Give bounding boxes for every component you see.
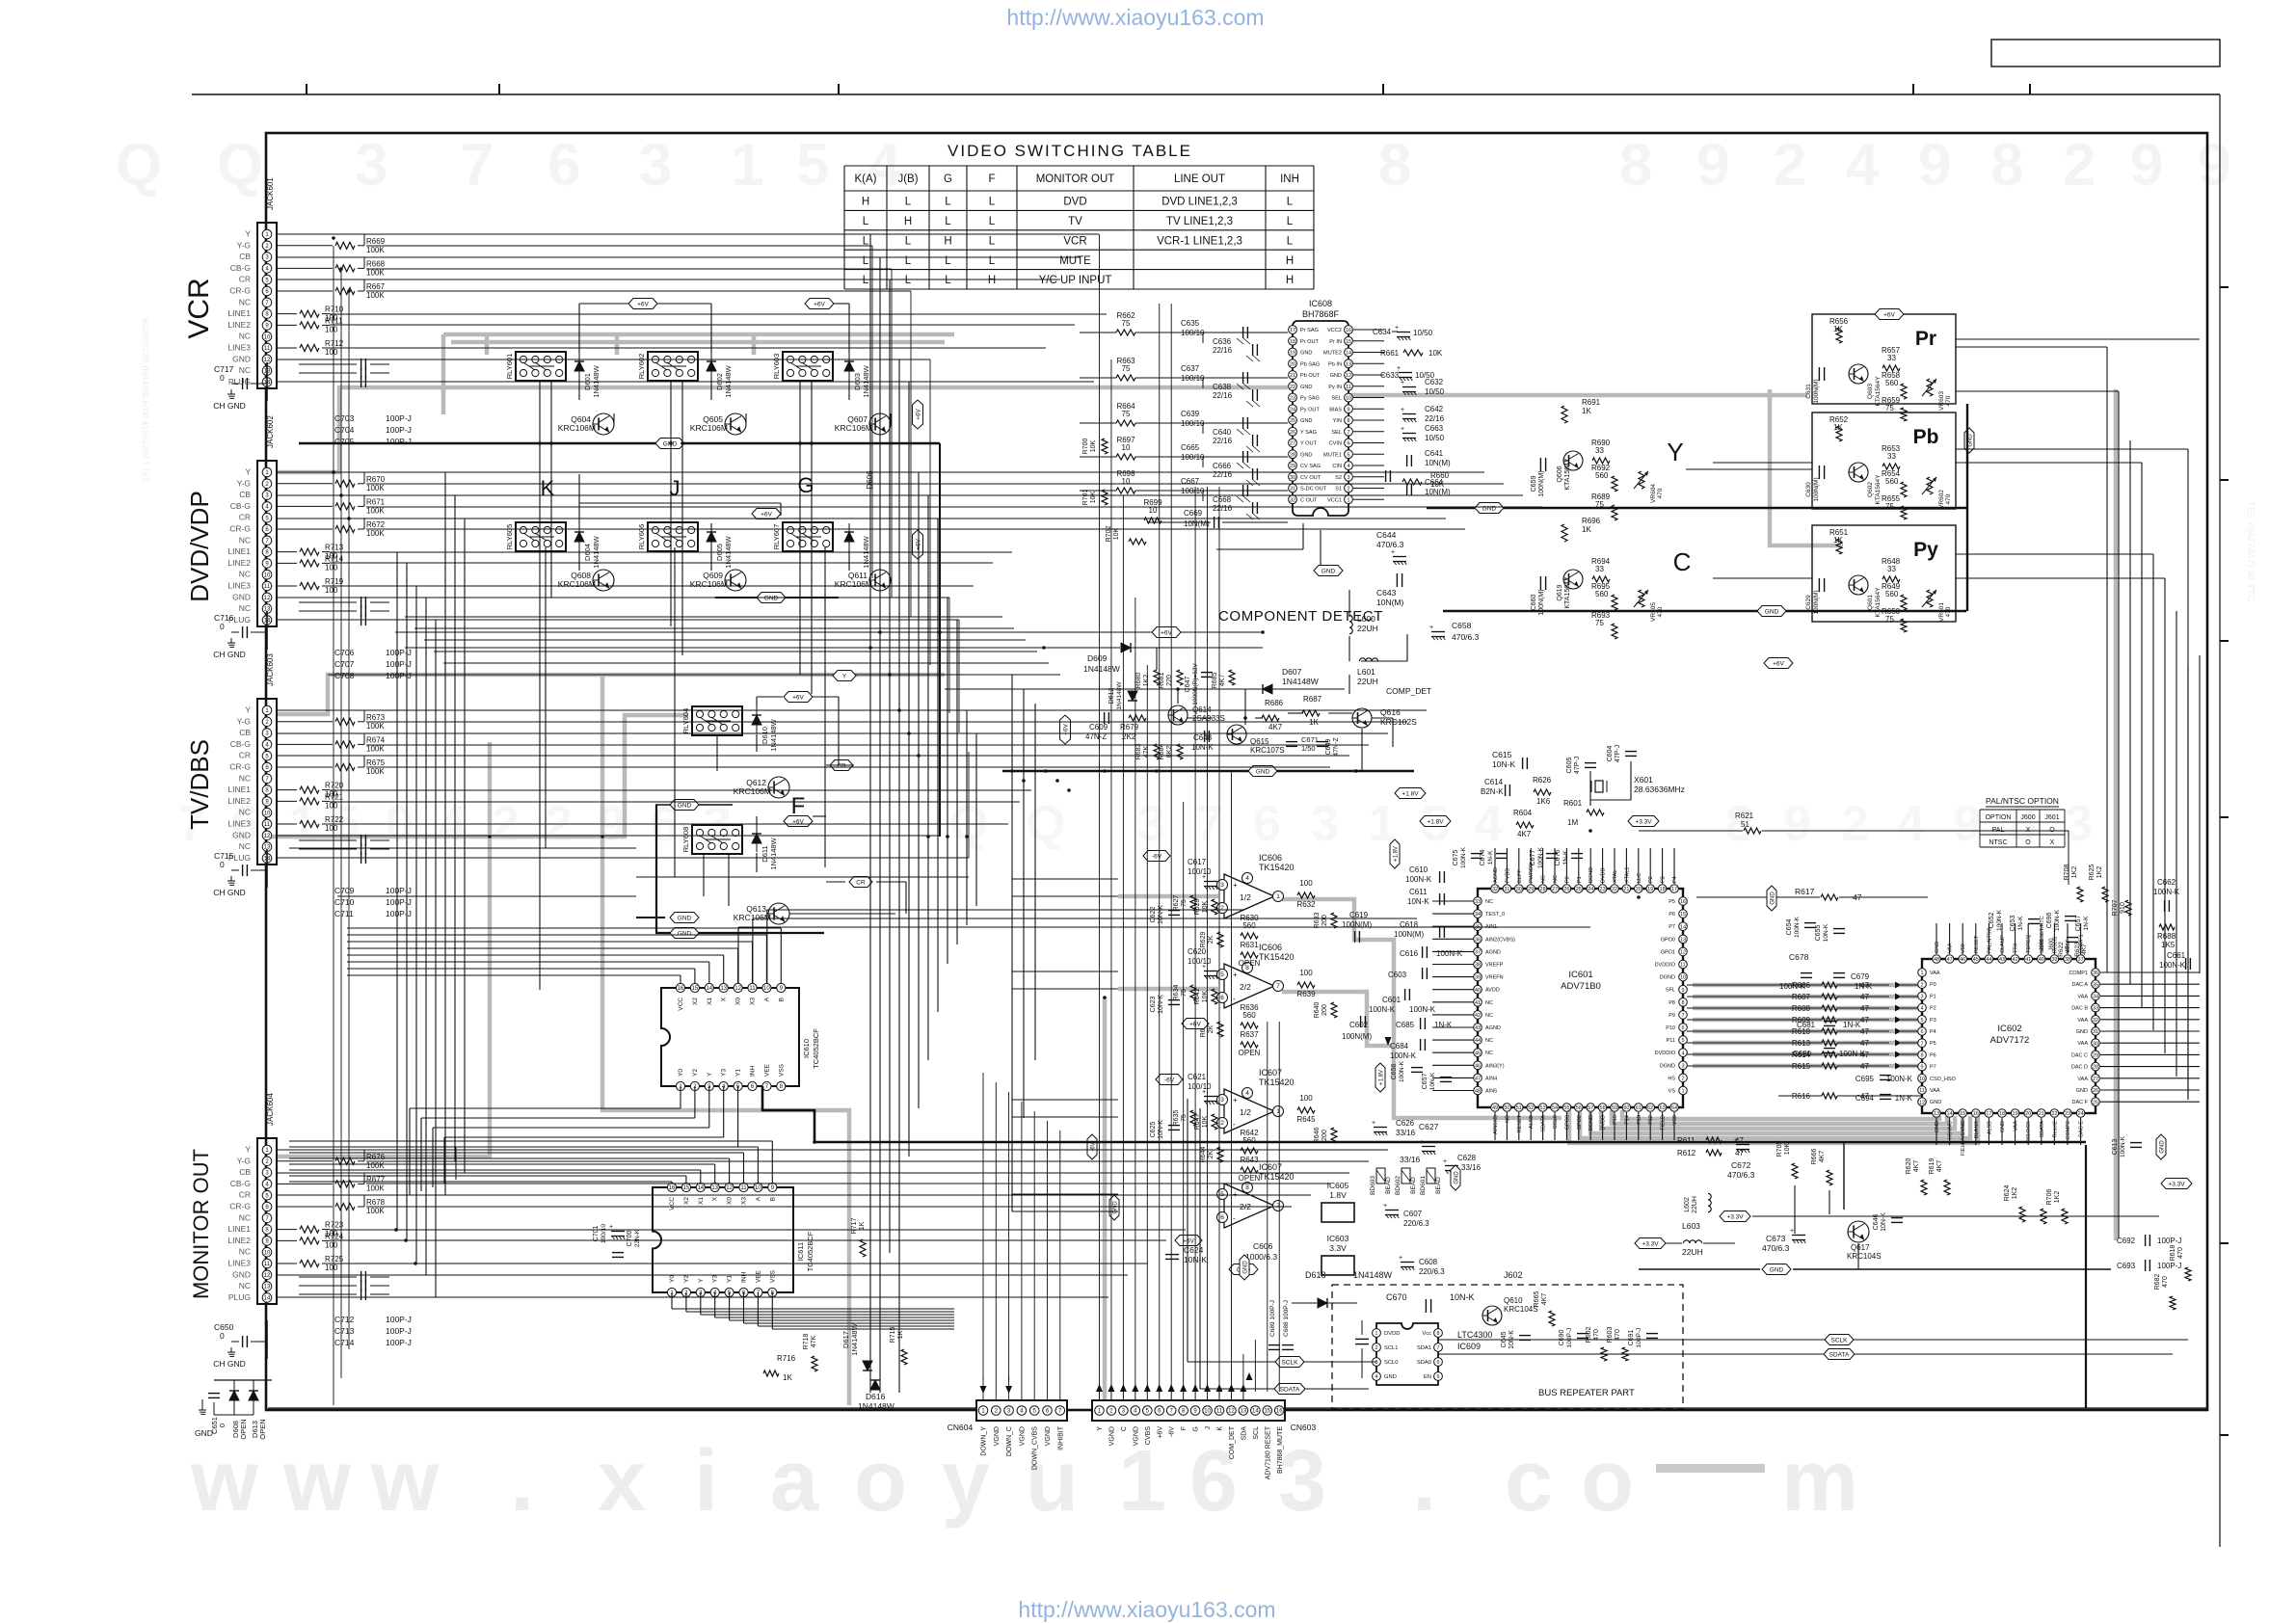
- svg-text:560: 560: [1242, 1011, 1256, 1020]
- svg-text:100P-J: 100P-J: [386, 671, 412, 680]
- svg-text:15: 15: [683, 1185, 690, 1191]
- block Py: [1812, 525, 1956, 622]
- svg-text:CSO_HSO: CSO_HSO: [1930, 1077, 1957, 1082]
- svg-text:COMP1: COMP1: [2069, 971, 2088, 976]
- svg-text:C691: C691: [1628, 1330, 1635, 1346]
- IC IC610 TC4052BCF: [661, 988, 799, 1086]
- svg-text:JACK603: JACK603: [266, 653, 275, 686]
- svg-text:C703: C703: [334, 413, 355, 423]
- transistor Q606: [1563, 451, 1583, 470]
- svg-text:10: 10: [763, 986, 770, 992]
- svg-text:32: 32: [1290, 497, 1295, 503]
- svg-text:XTAL: XTAL: [1613, 870, 1618, 883]
- gnd bus y634: [1443, 610, 1966, 613]
- svg-text:GPO1: GPO1: [1661, 949, 1675, 955]
- svg-text:10: 10: [264, 334, 271, 340]
- svg-text:CR: CR: [239, 513, 251, 522]
- svg-text:1N4148W: 1N4148W: [858, 1401, 894, 1411]
- svg-text:VR604: VR604: [1650, 484, 1657, 503]
- svg-text:C609: C609: [1089, 723, 1108, 732]
- svg-text:P2: P2: [1648, 876, 1654, 883]
- svg-text:VR601: VR601: [1938, 602, 1945, 622]
- svg-text:SCL: SCL: [1253, 1426, 1260, 1440]
- svg-text:BEAD: BEAD: [1385, 1177, 1392, 1194]
- transistor Q602: [1849, 463, 1868, 482]
- svg-text:C678: C678: [1789, 952, 1809, 962]
- svg-text:18: 18: [1999, 1111, 2005, 1117]
- svg-text:NC: NC: [1485, 1000, 1493, 1006]
- wire ic610 bottom left fan: [680, 1086, 681, 1108]
- svg-text:SCLK: SCLK: [1282, 1359, 1299, 1366]
- svg-text:100N-K: 100N-K: [1409, 1005, 1436, 1014]
- svg-text:470/6.3: 470/6.3: [1727, 1170, 1755, 1180]
- svg-text:IC611: IC611: [796, 1242, 805, 1261]
- power -6V b: [1156, 1075, 1183, 1085]
- svg-text:1K: 1K: [783, 1373, 792, 1382]
- svg-text:IC606: IC606: [1259, 943, 1282, 952]
- resistor R674: [277, 743, 333, 745]
- svg-text:+: +: [1383, 1203, 1387, 1210]
- svg-text:B: B: [769, 1197, 776, 1201]
- svg-text:C671: C671: [1301, 735, 1319, 744]
- svg-text:PLUG: PLUG: [228, 1292, 251, 1302]
- svg-text:K(A): K(A): [855, 173, 877, 185]
- svg-text:75: 75: [1181, 899, 1188, 907]
- svg-text:1: 1: [1920, 971, 1923, 976]
- svg-text:R711: R711: [325, 316, 343, 325]
- svg-text:1N-K: 1N-K: [1434, 1021, 1453, 1029]
- transistor Q613: [768, 903, 789, 924]
- svg-text:D609: D609: [1087, 653, 1108, 663]
- svg-text:4K7: 4K7: [1936, 1160, 1943, 1173]
- svg-text:BLANK: BLANK: [1974, 1121, 1980, 1138]
- svg-text:OPEN: OPEN: [1239, 1049, 1261, 1057]
- wire thick y1185 extension: [1844, 1141, 2086, 1144]
- svg-text:75: 75: [1122, 319, 1131, 328]
- svg-text:100: 100: [325, 801, 338, 810]
- svg-text:CN603: CN603: [1291, 1423, 1317, 1432]
- IC IC609 LTC4300: [1376, 1323, 1438, 1385]
- svg-text:1K6: 1K6: [1536, 797, 1551, 806]
- svg-text:+: +: [1401, 380, 1404, 386]
- svg-text:R706: R706: [2046, 1189, 2053, 1206]
- svg-text:4K7: 4K7: [1541, 1293, 1548, 1306]
- svg-text:P10: P10: [1666, 1025, 1675, 1031]
- svg-text:Y: Y: [707, 1072, 713, 1077]
- resistor R723: [277, 1229, 297, 1231]
- svg-text:10N(M): 10N(M): [1376, 598, 1404, 607]
- svg-text:GND: GND: [232, 830, 251, 839]
- block Pb: [1812, 412, 1956, 509]
- svg-text:75: 75: [1181, 1114, 1188, 1122]
- svg-text:560: 560: [1242, 921, 1256, 930]
- svg-text:25: 25: [1576, 887, 1582, 892]
- svg-text:+: +: [1401, 426, 1404, 433]
- svg-text:+3.3V: +3.3V: [1726, 1213, 1744, 1220]
- svg-text:TEST_0: TEST_0: [1485, 912, 1505, 918]
- svg-text:R669: R669: [366, 237, 386, 246]
- svg-text:24: 24: [1290, 407, 1295, 412]
- svg-text:+1.8V: +1.8V: [1393, 846, 1399, 862]
- svg-text:18: 18: [1660, 887, 1666, 892]
- svg-text:6: 6: [1253, 796, 1281, 852]
- resistor R670: [277, 483, 333, 485]
- power +6V pr: [1875, 309, 1904, 320]
- wire relay row2 stubs: [578, 474, 580, 523]
- svg-text:C694: C694: [1855, 1094, 1875, 1103]
- svg-text:R672: R672: [366, 520, 386, 529]
- svg-text:K: K: [541, 476, 555, 500]
- svg-text:29: 29: [1528, 887, 1534, 892]
- inductor L600: [1349, 615, 1352, 621]
- svg-text:L603: L603: [1682, 1221, 1700, 1231]
- transistor Q609: [725, 570, 746, 591]
- svg-text:GND: GND: [232, 1269, 251, 1279]
- svg-text:OPEN: OPEN: [258, 1419, 267, 1439]
- svg-text:P4: P4: [1930, 1029, 1936, 1035]
- gnd rot: [1767, 886, 1776, 911]
- svg-text:D607: D607: [1282, 667, 1302, 677]
- svg-text:23: 23: [2065, 1111, 2070, 1117]
- svg-text:2/2: 2/2: [1240, 982, 1251, 992]
- svg-text:R620: R620: [1906, 1158, 1912, 1175]
- svg-text:O: O: [2025, 839, 2031, 846]
- svg-text:14: 14: [1252, 1409, 1259, 1415]
- svg-text:1K: 1K: [1582, 525, 1591, 534]
- svg-text:R691: R691: [1582, 398, 1601, 407]
- connector CN603: [1092, 1400, 1285, 1421]
- svg-text:VAA: VAA: [2077, 1018, 2088, 1024]
- svg-text:R604: R604: [1513, 809, 1533, 817]
- svg-text:4: 4: [1245, 1090, 1249, 1097]
- relay RLY604: [692, 706, 742, 735]
- svg-text:C707: C707: [334, 659, 355, 669]
- svg-text:C693: C693: [2117, 1262, 2136, 1270]
- svg-text:16: 16: [1276, 1409, 1283, 1415]
- svg-text:TK15420: TK15420: [1259, 863, 1295, 872]
- svg-text:C607: C607: [1403, 1210, 1423, 1218]
- svg-text:6: 6: [1920, 1029, 1923, 1035]
- svg-text:3: 3: [1137, 796, 1165, 852]
- svg-text:22UH: 22UH: [1682, 1247, 1703, 1257]
- svg-text:100K: 100K: [366, 246, 385, 254]
- svg-text:12: 12: [1346, 373, 1351, 379]
- svg-text:-6V: -6V: [1152, 853, 1162, 860]
- svg-text:10N-K: 10N-K: [1881, 1212, 1887, 1232]
- svg-text:NC: NC: [1485, 899, 1493, 905]
- wire mid horizontals 2: [405, 616, 1002, 618]
- svg-text:1K: 1K: [897, 1330, 904, 1339]
- svg-text:100N-K: 100N-K: [1794, 916, 1801, 938]
- svg-text:6: 6: [1681, 1025, 1684, 1031]
- svg-text:43: 43: [1475, 1025, 1481, 1031]
- svg-text:27: 27: [2093, 1077, 2098, 1082]
- svg-text:100: 100: [325, 1264, 338, 1272]
- svg-text:0: 0: [218, 1423, 227, 1427]
- svg-text:-: -: [1233, 995, 1236, 1003]
- svg-text:100K: 100K: [366, 722, 385, 731]
- svg-text:GND: GND: [1770, 891, 1775, 905]
- svg-text:TC4052BCF: TC4052BCF: [812, 1028, 820, 1069]
- svg-text:C679: C679: [1851, 972, 1870, 981]
- svg-text:GND: GND: [1384, 1374, 1397, 1380]
- svg-text:KRC107S: KRC107S: [1250, 746, 1285, 755]
- svg-text:a: a: [770, 1433, 819, 1530]
- svg-text:C690: C690: [1559, 1330, 1565, 1346]
- svg-text:C628: C628: [1457, 1154, 1477, 1162]
- svg-text:R716: R716: [777, 1354, 796, 1363]
- svg-text:1N-K: 1N-K: [1895, 1094, 1913, 1103]
- svg-text:Pb OUT: Pb OUT: [1300, 373, 1321, 379]
- relay RLY607: [783, 522, 833, 551]
- svg-text:22: 22: [1290, 385, 1295, 390]
- svg-text:+: +: [1443, 1158, 1447, 1165]
- svg-text:34: 34: [1475, 912, 1481, 918]
- svg-text:G: G: [944, 173, 952, 185]
- svg-text:L: L: [989, 235, 996, 247]
- svg-text:100N-K: 100N-K: [1460, 846, 1467, 868]
- svg-text:3.3V: 3.3V: [1329, 1243, 1347, 1253]
- svg-text:C613: C613: [2112, 1139, 2119, 1156]
- resistor R687: [1302, 710, 1320, 716]
- svg-text:75: 75: [1595, 500, 1604, 509]
- svg-text:ADV7180 RESET: ADV7180 RESET: [1265, 1425, 1271, 1479]
- svg-text:Y: Y: [245, 467, 251, 477]
- svg-text:Y2: Y2: [692, 1069, 699, 1077]
- svg-text:C637: C637: [1181, 364, 1200, 373]
- svg-text:o: o: [1581, 1433, 1634, 1530]
- svg-text:P6: P6: [1669, 912, 1675, 918]
- svg-text:GND: GND: [1482, 505, 1497, 512]
- power +6V op2: [1175, 1236, 1202, 1246]
- svg-text:100K: 100K: [366, 1161, 385, 1170]
- svg-text:TK15420: TK15420: [1259, 1172, 1295, 1182]
- svg-text:+3.3V: +3.3V: [1642, 1240, 1659, 1247]
- svg-text:200: 200: [1322, 915, 1328, 926]
- power +6V compdet: [1152, 627, 1181, 638]
- resistor R710: [277, 313, 297, 315]
- capacitor C671: [1286, 741, 1297, 743]
- svg-text:1K: 1K: [859, 1221, 866, 1230]
- svg-text:L602: L602: [1684, 1197, 1691, 1212]
- svg-text:Y-G: Y-G: [237, 1156, 251, 1165]
- svg-text:C643: C643: [1376, 588, 1397, 598]
- svg-text:PAL/NTSC: PAL/NTSC: [1987, 927, 1992, 953]
- svg-text:Pr SAG: Pr SAG: [1300, 328, 1319, 333]
- svg-text:15: 15: [1680, 912, 1686, 918]
- resistor R678: [277, 1206, 333, 1208]
- svg-text:C701: C701: [593, 1226, 600, 1242]
- svg-text:3: 3: [639, 132, 672, 199]
- svg-text:P9: P9: [1669, 1013, 1675, 1019]
- svg-text:+3.3V: +3.3V: [1635, 818, 1652, 825]
- svg-text:Y: Y: [1667, 438, 1683, 466]
- svg-text:L: L: [945, 275, 951, 286]
- svg-text:VCC1: VCC1: [1327, 497, 1342, 503]
- svg-text:R661: R661: [1380, 349, 1400, 358]
- svg-text:53: 53: [1540, 1105, 1546, 1111]
- svg-text:+6V: +6V: [1157, 1426, 1163, 1439]
- svg-text:470: 470: [1945, 493, 1952, 504]
- wire F vertical: [655, 805, 657, 933]
- svg-text:11: 11: [264, 346, 271, 352]
- svg-text:46: 46: [1475, 1063, 1481, 1069]
- wire pr top to border: [1956, 346, 2107, 348]
- transistor Q603: [1849, 364, 1868, 384]
- diode D603: [848, 353, 850, 361]
- svg-text:75: 75: [1885, 502, 1894, 511]
- svg-text:35: 35: [2093, 982, 2098, 988]
- svg-text:47: 47: [1475, 1077, 1481, 1082]
- svg-text:C711: C711: [334, 909, 354, 918]
- svg-text:C654: C654: [1786, 919, 1793, 936]
- svg-text:Y: Y: [698, 1278, 705, 1283]
- svg-text:21: 21: [1290, 373, 1295, 379]
- svg-text:R717: R717: [851, 1218, 858, 1235]
- svg-text:VCR-1 LINE1,2,3: VCR-1 LINE1,2,3: [1157, 235, 1242, 247]
- svg-text:100K: 100K: [366, 529, 385, 538]
- svg-text:GND: GND: [2000, 1121, 2006, 1132]
- svg-text:+: +: [1401, 407, 1404, 413]
- svg-text:GND: GND: [764, 595, 779, 601]
- svg-text:KRC104S: KRC104S: [1847, 1252, 1882, 1261]
- svg-text:X1: X1: [698, 1197, 705, 1205]
- svg-text:0: 0: [220, 373, 225, 383]
- svg-text:C658: C658: [1452, 621, 1472, 630]
- transistor Q612: [768, 777, 789, 798]
- svg-text:0: 0: [220, 622, 225, 631]
- svg-text:41: 41: [2025, 957, 2031, 963]
- svg-text:33/16: 33/16: [1461, 1163, 1482, 1172]
- capacitor group C703|100P-J: [299, 363, 357, 365]
- svg-text:19: 19: [2013, 1111, 2018, 1117]
- svg-text:60: 60: [1623, 1105, 1629, 1111]
- wire ic601 left stubs: [1432, 900, 1474, 902]
- svg-text:CV SAG: CV SAG: [1300, 464, 1321, 469]
- svg-text:46: 46: [1960, 957, 1965, 963]
- svg-text:100N(M): 100N(M): [1813, 477, 1820, 501]
- svg-text:22/16: 22/16: [1213, 346, 1233, 355]
- svg-text:KRC106M: KRC106M: [690, 579, 728, 589]
- svg-text:VAA: VAA: [2077, 1041, 2088, 1047]
- svg-text:CVBS: CVBS: [1145, 1426, 1152, 1445]
- svg-text:MONITOR OUT: MONITOR OUT: [1036, 173, 1115, 185]
- svg-text:100N(M): 100N(M): [1538, 589, 1545, 615]
- svg-text:VGND: VGND: [994, 1426, 1001, 1446]
- svg-text:Pr IN: Pr IN: [1329, 339, 1342, 345]
- svg-text:P11: P11: [1667, 1038, 1675, 1044]
- svg-text:C635: C635: [1181, 319, 1200, 328]
- svg-text:Y: Y: [245, 229, 251, 239]
- svg-text:C634: C634: [1373, 328, 1392, 336]
- svg-text:Py SAG: Py SAG: [1300, 396, 1320, 402]
- svg-text:15: 15: [1960, 1111, 1965, 1117]
- svg-text:3: 3: [1375, 1360, 1377, 1366]
- op-amp IC606|TK15420 2/2: [1224, 964, 1274, 1008]
- svg-text:43: 43: [1999, 957, 2005, 963]
- svg-text:C665: C665: [1181, 443, 1200, 452]
- svg-text:4: 4: [1681, 1051, 1684, 1056]
- capacitor C659|100N(M): [1539, 458, 1541, 471]
- svg-text:DVD LINE1,2,3: DVD LINE1,2,3: [1161, 197, 1238, 208]
- svg-text:VCR: VCR: [183, 278, 215, 338]
- wire long verticals left-mid: [333, 246, 334, 1405]
- svg-text:c: c: [1505, 1433, 1553, 1530]
- svg-text:100N-K: 100N-K: [1399, 1060, 1405, 1082]
- capacitor C608: [1401, 1262, 1414, 1264]
- svg-text:Reset2: Reset2: [2052, 1121, 2058, 1137]
- svg-text:F: F: [988, 173, 995, 185]
- capacitor C649: [1317, 741, 1328, 743]
- svg-text:9: 9: [1783, 796, 1811, 852]
- svg-text:10K: 10K: [1428, 349, 1443, 358]
- svg-text:X601: X601: [1634, 775, 1653, 785]
- svg-text:2: 2: [1347, 487, 1349, 492]
- svg-text:1M: 1M: [1567, 818, 1578, 827]
- svg-text:R700: R700: [1082, 439, 1089, 455]
- svg-text:GND: GND: [1322, 568, 1336, 574]
- svg-text:100: 100: [325, 586, 338, 595]
- svg-text:49: 49: [1492, 1105, 1498, 1111]
- svg-text:14: 14: [697, 1185, 704, 1191]
- svg-text:BEAD: BEAD: [1435, 1177, 1442, 1194]
- svg-text:GND: GND: [2076, 1029, 2088, 1035]
- svg-text:CB: CB: [239, 252, 251, 261]
- svg-text:C OUT: C OUT: [1300, 497, 1318, 503]
- svg-text:13: 13: [711, 1185, 718, 1191]
- svg-text:10: 10: [1204, 1409, 1211, 1415]
- wire thick x975: [939, 443, 941, 837]
- svg-text:R619: R619: [1929, 1158, 1936, 1175]
- svg-text:12: 12: [264, 834, 271, 839]
- svg-text:IC607: IC607: [1259, 1162, 1282, 1172]
- svg-text:C695: C695: [1855, 1075, 1875, 1083]
- svg-text:J: J: [1205, 1426, 1212, 1430]
- svg-text:DOWN_Y: DOWN_Y: [981, 1426, 988, 1456]
- svg-text:6: 6: [1220, 1214, 1224, 1221]
- svg-text:C616: C616: [1400, 949, 1419, 958]
- svg-text:VGND: VGND: [1019, 1426, 1026, 1446]
- svg-text:C606: C606: [1253, 1241, 1273, 1251]
- gnd bus y527: [1427, 507, 1966, 510]
- svg-text:IC606: IC606: [1259, 853, 1282, 863]
- svg-text:P3: P3: [1661, 876, 1667, 883]
- svg-text:http://www.xiaoyu163.com: http://www.xiaoyu163.com: [1006, 5, 1264, 30]
- svg-text:3: 3: [1681, 1063, 1684, 1069]
- wire ic608 right stubs: [1353, 329, 1384, 331]
- svg-text:560: 560: [1595, 590, 1609, 599]
- svg-text:DVD/VDP: DVD/VDP: [185, 491, 214, 602]
- svg-text:LINE2: LINE2: [227, 558, 251, 568]
- label SCLK right: [1825, 1335, 1854, 1345]
- resistor R714: [277, 562, 297, 564]
- svg-text:L: L: [863, 275, 869, 286]
- svg-text:4: 4: [1475, 796, 1503, 852]
- svg-text:R621: R621: [1735, 811, 1754, 820]
- resistor R686: [1262, 715, 1279, 721]
- wire thick bus y1185: [814, 1141, 1844, 1144]
- svg-text:C674: C674: [1480, 850, 1486, 866]
- wire Y out to right: [1686, 468, 1812, 470]
- svg-text:C668: C668: [1213, 495, 1232, 504]
- svg-text:KTA1564Y: KTA1564Y: [1875, 587, 1882, 618]
- svg-text:36: 36: [1475, 937, 1481, 943]
- svg-text:100P-J: 100P-J: [386, 897, 412, 907]
- svg-text:+: +: [1202, 964, 1206, 971]
- svg-text:7: 7: [1920, 1041, 1923, 1047]
- svg-text:PVDD: PVDD: [1505, 868, 1510, 883]
- svg-text:LINE1: LINE1: [227, 546, 251, 556]
